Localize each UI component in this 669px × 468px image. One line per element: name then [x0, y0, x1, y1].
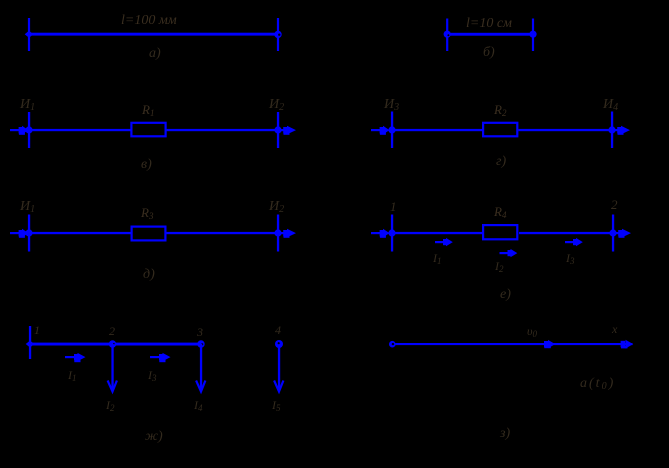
junction dot left: [25, 229, 32, 236]
figure e: wire with resistor R4 and current arrows: [371, 197, 631, 302]
figure zh: node currents diagram: [26, 323, 284, 444]
dimension line: [447, 33, 533, 36]
svg-text:2: 2: [611, 197, 618, 212]
figure b: dimension drawing l=10 cm: [444, 16, 537, 60]
svg-text:з): з): [499, 426, 510, 441]
terminal tick right: [277, 112, 279, 148]
svg-text:в): в): [141, 157, 152, 172]
junction dot right: [274, 229, 281, 236]
current arrow in (left): [10, 229, 29, 238]
figure g: wire with resistor R2: [371, 97, 630, 169]
extension line left: [446, 19, 448, 52]
svg-text:2: 2: [109, 324, 115, 338]
node 4 hole: [278, 342, 280, 344]
svg-text:l=10 см: l=10 см: [466, 16, 512, 31]
wire right segment: [167, 129, 279, 131]
node 3 dot: [197, 340, 204, 347]
node 2 dot: [109, 340, 116, 347]
figure d: wire with resistor R3: [10, 199, 296, 282]
wire right segment: [166, 232, 278, 234]
svg-text:г): г): [496, 154, 506, 169]
wire left segment: [392, 129, 483, 131]
svg-text:ж): ж): [145, 429, 163, 444]
wire left segment: [29, 129, 131, 131]
svg-text:б): б): [483, 45, 495, 60]
arrowhead dot right: [274, 31, 281, 38]
terminal tick node 1: [29, 326, 31, 359]
arrowhead diamond left: [25, 31, 34, 38]
down arrow from node 4: [274, 347, 283, 392]
current arrow in (left): [371, 229, 390, 238]
node 4 dot: [275, 340, 283, 348]
svg-text:д): д): [143, 267, 155, 282]
terminal tick left: [28, 112, 30, 148]
wire right segment: [519, 232, 613, 234]
current arrow out (right): [616, 229, 631, 238]
current arrow out (right): [281, 229, 296, 238]
extension line left: [28, 18, 30, 51]
junction dot left: [25, 126, 32, 133]
junction dot left: [388, 126, 395, 133]
origin dot: [389, 341, 396, 348]
current arrow I1: [65, 353, 86, 362]
svg-text:3: 3: [196, 325, 203, 339]
resistor R3: [132, 227, 166, 241]
svg-text:l=100 мм: l=100 мм: [121, 13, 177, 28]
current arrow out (right): [615, 126, 630, 135]
svg-text:а): а): [149, 46, 161, 61]
terminal tick left: [391, 112, 393, 149]
wire: [30, 343, 201, 346]
resistor R1: [131, 123, 165, 137]
figure a: dimension drawing l=100 mm: [25, 13, 282, 61]
terminal tick right: [612, 215, 614, 252]
current arrow I3: [565, 238, 583, 246]
current arrow I3: [150, 353, 171, 362]
svg-text:е): е): [500, 287, 511, 302]
wire left segment: [29, 232, 132, 234]
axis arrowhead: [621, 340, 634, 349]
current arrow out (right): [281, 126, 296, 135]
terminal tick left: [391, 215, 393, 252]
current arrow in (left): [371, 126, 390, 135]
resistor R4: [483, 225, 517, 239]
resistor R2: [483, 123, 517, 137]
dimension line: [30, 33, 275, 36]
svg-text:а(t0): а(t0): [580, 376, 615, 392]
figure z: x axis with velocity vector: [389, 322, 633, 441]
velocity arrowhead: [544, 340, 555, 348]
junction dot right: [609, 229, 616, 236]
svg-text:4: 4: [275, 323, 281, 337]
svg-text:1: 1: [34, 323, 40, 337]
figure v: wire with resistor R1: [10, 97, 296, 172]
junction dot right: [274, 126, 281, 133]
axis line: [396, 343, 633, 345]
junction dot right: [608, 126, 615, 133]
terminal tick right: [611, 112, 613, 149]
down arrow from node 3: [196, 344, 205, 392]
node 1 diamond: [26, 341, 35, 348]
down arrow from node 2: [108, 344, 117, 392]
terminal tick left: [28, 215, 30, 252]
wire left segment: [392, 232, 483, 234]
current arrow I1: [435, 238, 453, 246]
current arrow I2: [500, 249, 518, 257]
terminal tick right: [277, 215, 279, 252]
extension line right: [277, 18, 279, 51]
svg-text:х: х: [611, 322, 618, 336]
current arrow in (left): [10, 126, 29, 135]
end dot right: [529, 31, 536, 38]
wire right segment: [519, 129, 613, 131]
junction dot left: [388, 229, 395, 236]
extension line right: [532, 19, 534, 52]
svg-text:1: 1: [390, 199, 397, 214]
end dot left: [444, 31, 451, 38]
